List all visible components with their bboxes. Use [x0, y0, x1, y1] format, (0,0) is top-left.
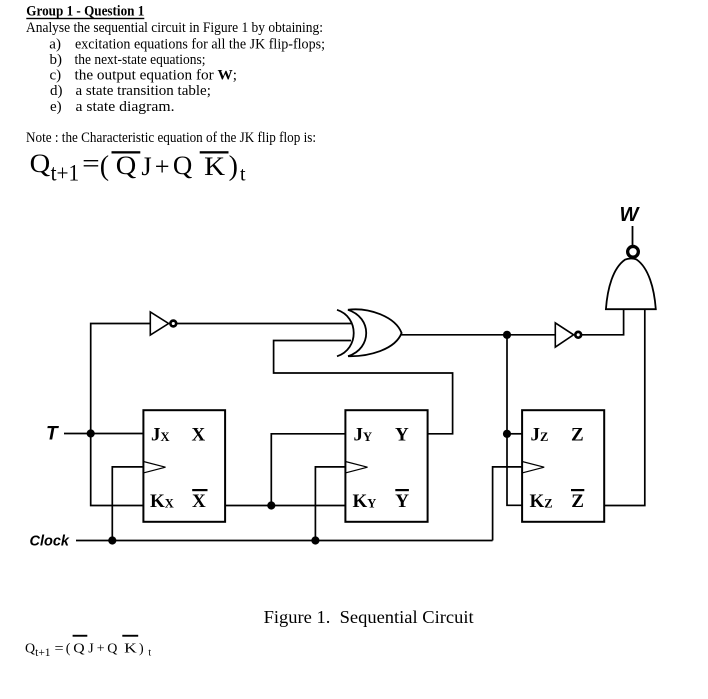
characteristic equation (large): [30, 149, 246, 186]
svg-text:X: X: [192, 425, 206, 446]
input T label: [46, 424, 59, 445]
svg-text:KY: KY: [353, 491, 377, 512]
svg-text:K: K: [124, 642, 137, 657]
svg-text:Group 1 - Question 1: Group 1 - Question 1: [26, 3, 144, 19]
node: T junction: [87, 429, 95, 437]
svg-text:): ): [139, 642, 144, 657]
flip-flop U2 clock arrow: [345, 462, 367, 473]
wire: junction to Jz input: [507, 433, 522, 435]
svg-text:Q: Q: [73, 642, 84, 657]
svg-text:+: +: [97, 642, 105, 657]
svg-text:T: T: [46, 424, 59, 445]
svg-text:Z: Z: [571, 425, 584, 446]
inverter G3 (NOT gate): [555, 323, 581, 347]
svg-text:a state transition table;: a state transition table;: [76, 83, 211, 99]
document text: [26, 3, 474, 627]
svg-text:the next-state equations;: the next-state equations;: [75, 52, 206, 68]
flip-flop U2 labels: [353, 425, 410, 513]
flip-flop U2 (Y) box: [345, 410, 427, 522]
svg-text:t: t: [240, 164, 246, 186]
svg-text:Clock: Clock: [30, 534, 70, 550]
svg-text:Y: Y: [395, 491, 409, 512]
svg-text:Z: Z: [571, 491, 584, 512]
svg-text:t+1: t+1: [51, 161, 80, 186]
wire: Y output feedback to XOR G2 lower input: [274, 341, 453, 434]
svg-text:excitation equations for all t: excitation equations for all the JK flip…: [75, 36, 325, 52]
svg-text:KZ: KZ: [530, 491, 553, 512]
svg-text:J: J: [141, 152, 151, 181]
flip-flop U1 clock arrow: [143, 462, 165, 473]
flip-flop U3 (Z) box: [522, 410, 604, 522]
svg-text:+: +: [155, 152, 170, 181]
flip-flop U3 labels: [530, 425, 585, 513]
svg-text:t: t: [148, 648, 151, 659]
node: clock junction 2: [311, 536, 319, 544]
svg-text:JX: JX: [151, 425, 170, 446]
node: XOR output junction: [503, 331, 511, 339]
svg-text:Q: Q: [116, 151, 137, 180]
svg-text:JZ: JZ: [531, 425, 549, 446]
wire: inverter G1 output to XOR G2 upper input: [177, 323, 351, 325]
flip-flop U1 labels: [150, 425, 208, 513]
svg-text:Qt+1: Qt+1: [25, 642, 51, 660]
xor gate G2: [337, 309, 402, 356]
wire: junction to inverter G3 input: [507, 334, 555, 336]
svg-text:K: K: [204, 152, 225, 181]
node: X-bar junction: [267, 501, 275, 509]
svg-text:Y: Y: [395, 425, 409, 446]
Clock label: [30, 534, 70, 550]
svg-text:Q: Q: [173, 151, 193, 180]
svg-text:): ): [229, 151, 238, 182]
svg-text:the output equation for W;: the output equation for W;: [75, 68, 238, 84]
nand gate G4 (output W): [606, 226, 656, 309]
title: [26, 3, 144, 19]
inverter G1 (NOT gate): [150, 312, 176, 335]
flip-flop U3 clock arrow: [522, 462, 544, 473]
wire: Z-bar output up to NAND G4 right input: [604, 309, 645, 506]
svg-text:a): a): [49, 36, 61, 52]
node: clock junction 1: [108, 536, 116, 544]
svg-text:Analyse the sequential circuit: Analyse the sequential circuit in Figure…: [26, 20, 323, 36]
node: Jz junction: [503, 430, 511, 438]
wire: XOR G2 output: [401, 334, 507, 336]
svg-text:e): e): [50, 99, 62, 115]
svg-text:J: J: [88, 642, 94, 657]
svg-text:(: (: [100, 151, 109, 182]
svg-text:Q: Q: [30, 149, 51, 178]
svg-text:Note : the Characteristic equa: Note : the Characteristic equation of th…: [26, 130, 316, 146]
wire: inverter G3 output to NAND G4 left input: [582, 309, 624, 335]
svg-text:JY: JY: [354, 425, 373, 446]
wire: T input horizontal to Jx: [64, 433, 143, 435]
wire: X-bar junction up to Jy input: [271, 434, 345, 506]
wire: T junction down to Kx input: [91, 434, 144, 506]
characteristic equation (small, bottom left): [25, 635, 151, 659]
wire: T junction up to inverter G1 input: [91, 324, 151, 434]
svg-text:d): d): [50, 83, 63, 99]
svg-text:c): c): [50, 68, 62, 84]
svg-text:=: =: [82, 149, 100, 178]
wire: clock bus: [76, 540, 493, 542]
svg-text:X: X: [192, 491, 206, 512]
wire: clock to flip-flop U2: [315, 467, 345, 541]
wire: junction down to Jz and Kz: [507, 335, 522, 506]
svg-text:Q: Q: [107, 642, 117, 657]
wire: clock to flip-flop U1: [112, 467, 143, 541]
wire: clock to flip-flop U3: [493, 467, 522, 541]
wire: X-bar output to Ky input: [225, 505, 345, 507]
svg-text:Figure 1. Sequential Circuit: Figure 1. Sequential Circuit: [264, 607, 474, 627]
svg-text:=: =: [55, 642, 64, 657]
svg-text:W: W: [620, 204, 641, 226]
svg-text:(: (: [66, 642, 71, 657]
flip-flop U1 (X) box: [143, 410, 225, 522]
svg-text:b): b): [50, 52, 63, 68]
svg-text:KX: KX: [150, 491, 174, 512]
svg-text:a state diagram.: a state diagram.: [76, 99, 175, 115]
output W label: [620, 204, 641, 226]
